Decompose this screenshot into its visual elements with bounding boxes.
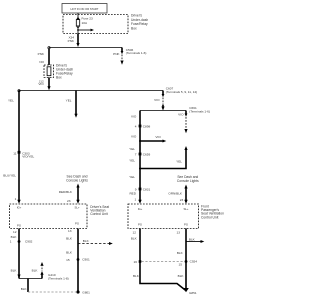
svg-text:13: 13 xyxy=(68,229,72,233)
svg-text:YEL: YEL xyxy=(129,175,135,179)
svg-text:VIO: VIO xyxy=(154,98,160,102)
svg-text:Control Unit: Control Unit xyxy=(90,212,107,216)
svg-text:RED: RED xyxy=(129,192,136,196)
svg-text:NO: NO xyxy=(39,60,44,64)
svg-text:BLK: BLK xyxy=(178,274,185,278)
svg-text:11: 11 xyxy=(13,151,16,155)
svg-text:Control Unit: Control Unit xyxy=(201,215,218,219)
svg-text:YEL: YEL xyxy=(129,158,135,162)
svg-text:PNK: PNK xyxy=(38,52,45,56)
svg-text:BLK: BLK xyxy=(83,239,90,243)
svg-text:BLK: BLK xyxy=(131,236,138,240)
svg-text:1: 1 xyxy=(134,198,136,202)
svg-text:C902: C902 xyxy=(25,240,33,244)
svg-text:C924: C924 xyxy=(190,260,198,264)
svg-text:IG+: IG+ xyxy=(17,205,22,209)
svg-text:G851: G851 xyxy=(189,291,197,295)
svg-text:VIO: VIO xyxy=(131,115,137,119)
svg-text:SL+: SL+ xyxy=(183,207,188,211)
svg-text:SL+: SL+ xyxy=(74,206,79,210)
svg-text:YEL: YEL xyxy=(129,147,135,151)
svg-text:VIO: VIO xyxy=(131,135,137,139)
svg-text:ORN/BLK: ORN/BLK xyxy=(168,191,183,195)
svg-text:7: 7 xyxy=(135,153,137,157)
svg-text:1: 1 xyxy=(10,240,12,244)
svg-text:Box: Box xyxy=(131,26,137,30)
svg-text:VIO: VIO xyxy=(38,82,44,86)
svg-text:(Terminals 1-8): (Terminals 1-8) xyxy=(48,276,69,280)
svg-text:Console Lights: Console Lights xyxy=(66,178,88,182)
svg-text:PNK: PNK xyxy=(68,39,75,43)
svg-text:15: 15 xyxy=(179,263,183,267)
svg-text:(Terminals 1-6): (Terminals 1-6) xyxy=(126,51,147,55)
svg-text:IG+: IG+ xyxy=(138,207,143,211)
svg-text:23: 23 xyxy=(67,199,71,203)
svg-text:HOT IN ON OR START: HOT IN ON OR START xyxy=(71,7,99,11)
svg-text:VIO/YEL: VIO/YEL xyxy=(22,155,34,159)
svg-text:BLK: BLK xyxy=(21,287,28,291)
svg-text:YEL: YEL xyxy=(8,98,14,102)
svg-text:16: 16 xyxy=(134,260,138,264)
svg-text:PNK: PNK xyxy=(113,52,120,56)
svg-text:Fuse 23: Fuse 23 xyxy=(82,16,93,20)
svg-text:BLK: BLK xyxy=(66,250,73,254)
svg-text:VIO: VIO xyxy=(155,135,161,139)
svg-text:C898: C898 xyxy=(143,125,151,129)
svg-text:BLK: BLK xyxy=(133,274,140,278)
svg-text:C831: C831 xyxy=(143,188,151,192)
svg-text:RED/BLK: RED/BLK xyxy=(59,190,73,194)
svg-text:BLK: BLK xyxy=(66,237,73,241)
svg-text:PG: PG xyxy=(17,224,21,228)
svg-text:13: 13 xyxy=(177,230,181,234)
svg-text:BLK: BLK xyxy=(177,251,184,255)
svg-text:BLK: BLK xyxy=(32,269,39,273)
svg-text:PG: PG xyxy=(138,223,142,227)
svg-text:(Terminals 5, 9, 11, 12): (Terminals 5, 9, 11, 12) xyxy=(166,90,197,94)
svg-text:Box: Box xyxy=(56,76,62,80)
svg-text:C901: C901 xyxy=(82,258,90,262)
svg-text:C659: C659 xyxy=(143,153,151,157)
svg-text:(Terminals 1-6): (Terminals 1-6) xyxy=(189,109,210,113)
svg-text:23: 23 xyxy=(180,198,184,202)
svg-text:1: 1 xyxy=(15,197,17,201)
svg-text:VIO: VIO xyxy=(178,112,184,116)
svg-text:PG: PG xyxy=(75,222,79,226)
svg-text:12: 12 xyxy=(133,230,137,234)
svg-text:BLK: BLK xyxy=(11,269,18,273)
svg-text:BLK: BLK xyxy=(11,235,18,239)
svg-text:YEL: YEL xyxy=(66,98,72,102)
svg-text:BLK: BLK xyxy=(189,237,196,241)
svg-text:BLU/YEL: BLU/YEL xyxy=(3,173,16,177)
svg-text:12: 12 xyxy=(13,230,17,234)
svg-text:10A: 10A xyxy=(82,21,88,25)
svg-text:YEL: YEL xyxy=(176,160,182,164)
svg-text:4: 4 xyxy=(135,125,137,129)
svg-text:15: 15 xyxy=(66,258,70,262)
svg-text:G801: G801 xyxy=(82,291,90,295)
svg-text:Console Lights: Console Lights xyxy=(177,179,199,183)
svg-text:PG: PG xyxy=(184,223,188,227)
